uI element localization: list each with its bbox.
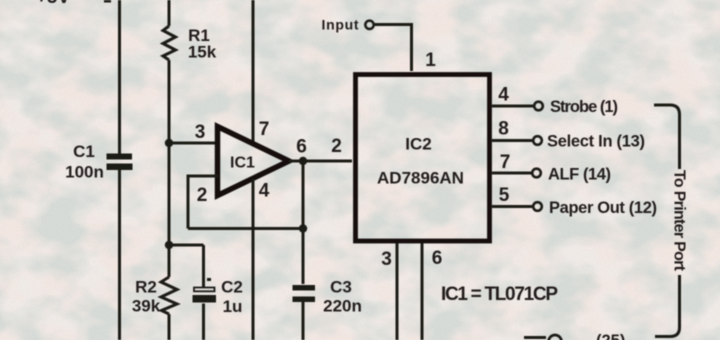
svg-text:8: 8	[498, 119, 509, 140]
wire: IC1 pin7 vertical to top	[252, 0, 255, 142]
wire: cut-off bottom stub	[524, 336, 546, 339]
svg-text:Paper Out (12): Paper Out (12)	[549, 199, 657, 217]
wire: C2 top lead	[202, 245, 205, 287]
svg-text:+5V: +5V	[36, 0, 71, 8]
wire: left vertical rail (below C1 to bottom)	[118, 170, 121, 340]
wire: IC2 pin3 down	[396, 243, 399, 340]
svg-text:6: 6	[432, 248, 443, 269]
wire: R2/C2 link	[169, 244, 204, 247]
svg-text:AD7896AN: AD7896AN	[377, 169, 464, 188]
svg-text:Input: Input	[322, 17, 359, 33]
wire: IC1 output to IC2 pin2	[289, 160, 352, 163]
svg-text:Select In (13): Select In (13)	[547, 133, 645, 151]
wire: output down to C3	[302, 161, 305, 284]
svg-text:IC1: IC1	[230, 155, 255, 172]
capacitor C2	[194, 288, 215, 292]
input terminal	[365, 21, 373, 29]
wire: R1/R2 rail top segment	[168, 0, 171, 26]
svg-text:ALF (14): ALF (14)	[548, 166, 611, 184]
svg-text:C2: C2	[221, 278, 243, 297]
svg-text:39k: 39k	[132, 297, 161, 316]
op-amp IC1	[218, 127, 290, 196]
resistor R2	[161, 277, 177, 314]
svg-text:2: 2	[197, 185, 208, 206]
wire: pin7 stub	[492, 172, 532, 175]
wire: R2 bottom to edge	[168, 314, 171, 340]
bracket to printer port (top hook)	[654, 105, 680, 169]
svg-text:5: 5	[499, 185, 510, 206]
wire: IC1 pin3 horizontal	[169, 142, 218, 145]
svg-text:3: 3	[381, 249, 392, 270]
svg-text:3: 3	[195, 122, 206, 143]
node junction R1/pin3	[165, 139, 173, 147]
svg-text:2: 2	[331, 136, 342, 157]
svg-text:7: 7	[500, 152, 511, 173]
wire: pin5 stub	[492, 205, 533, 208]
wire: feedback bottom run	[188, 227, 303, 230]
svg-text:IC2: IC2	[405, 135, 431, 154]
wire: C3 bottom lead	[302, 302, 305, 340]
svg-text:C1: C1	[73, 142, 95, 161]
bracket to printer port (bottom hook)	[655, 275, 680, 337]
svg-text:7: 7	[259, 119, 270, 140]
terminal pin5	[533, 202, 542, 211]
capacitor C3	[293, 285, 316, 291]
IC2 AD7896AN	[356, 75, 490, 242]
terminal pin7	[532, 169, 541, 178]
svg-text:IC1 = TL071CP: IC1 = TL071CP	[441, 284, 558, 305]
polarity mark C2	[207, 278, 211, 281]
terminal pin4	[534, 102, 543, 111]
svg-text:4: 4	[498, 85, 509, 106]
wire: IC2 pin6 down	[421, 243, 424, 340]
svg-text:To Printer Port: To Printer Port	[671, 170, 688, 272]
svg-text:R2: R2	[135, 278, 157, 297]
wire: IC1 pin4 vertical to bottom	[252, 179, 255, 340]
wire: left vertical rail (upper, into C1)	[118, 0, 121, 154]
terminal cut-off bottom	[549, 335, 562, 340]
svg-text:6: 6	[296, 137, 307, 158]
wire: pin8 stub	[492, 139, 533, 142]
svg-text:C3: C3	[330, 278, 352, 297]
node junction R2/C2	[165, 241, 173, 249]
wire: pin4 stub	[492, 105, 534, 108]
capacitor C1	[107, 154, 133, 160]
svg-text:100n: 100n	[65, 163, 104, 182]
svg-text:4: 4	[259, 181, 270, 202]
svg-text:15k: 15k	[188, 43, 217, 62]
wire: pin2 stub and feedback left leg	[188, 176, 218, 229]
node junction feedback/output	[299, 224, 307, 232]
wire: C2 bottom lead	[202, 304, 205, 340]
svg-text:(25): (25)	[596, 332, 625, 340]
resistor R1	[163, 26, 176, 60]
wire: input to IC2 pin1	[375, 25, 412, 72]
terminal pin8	[533, 136, 542, 145]
svg-text:220n: 220n	[323, 297, 362, 316]
svg-text:1: 1	[425, 50, 436, 71]
node junction output	[299, 157, 307, 165]
svg-text:1u: 1u	[223, 297, 243, 316]
wire: R1/R2 rail middle segment	[168, 60, 171, 277]
svg-text:Strobe (1): Strobe (1)	[550, 98, 618, 116]
